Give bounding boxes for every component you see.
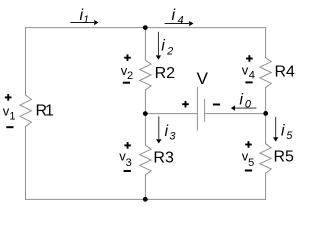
- label v1 with polarity: [3, 94, 16, 128]
- label i4: [172, 7, 184, 26]
- battery minus polarity: [213, 104, 220, 106]
- current arrow i2: [156, 32, 161, 60]
- wire middle branch center: [144, 90, 146, 145]
- label i3: [165, 123, 177, 143]
- wire middle branch lower: [144, 175, 146, 199]
- resistor R5: [260, 144, 271, 174]
- battery V long plate: [196, 88, 198, 131]
- wire middle branch upper: [144, 28, 146, 60]
- svg-text:i: i: [281, 122, 285, 139]
- current arrow i1: [70, 20, 98, 25]
- svg-text:R4: R4: [275, 63, 296, 80]
- resistor R1: [20, 95, 31, 127]
- current arrow i0: [231, 105, 257, 110]
- wire right middle: [265, 88, 267, 144]
- svg-text:i: i: [172, 7, 176, 24]
- svg-text:i: i: [165, 123, 169, 140]
- label v3 with polarity: [119, 142, 132, 172]
- svg-text:4: 4: [178, 14, 184, 26]
- svg-text:V: V: [197, 69, 209, 88]
- node d junction dot bottom: [143, 197, 148, 202]
- svg-text:R3: R3: [153, 149, 174, 166]
- svg-text:5: 5: [286, 130, 293, 142]
- svg-text:2: 2: [127, 70, 133, 82]
- label i5: [281, 122, 293, 142]
- label i0: [239, 92, 252, 111]
- current arrow i4: [165, 21, 194, 26]
- wire right lower: [265, 173, 267, 199]
- wire bottom: [26, 198, 266, 200]
- label v5 with polarity: [242, 141, 254, 171]
- label v2 with polarity: [121, 54, 133, 83]
- svg-text:2: 2: [166, 46, 173, 58]
- svg-text:R2: R2: [155, 65, 176, 82]
- svg-text:0: 0: [245, 98, 252, 110]
- node b junction dot middle left: [143, 111, 148, 116]
- svg-text:5: 5: [248, 157, 254, 169]
- svg-text:1: 1: [9, 110, 15, 122]
- wire left lower: [25, 127, 27, 200]
- label i2: [161, 37, 173, 57]
- svg-text:4: 4: [249, 70, 255, 82]
- wire right upper: [265, 28, 267, 58]
- node a junction dot top: [143, 25, 148, 30]
- wire middle horizontal right of battery: [205, 113, 266, 115]
- svg-text:R1: R1: [36, 103, 55, 120]
- node c junction dot middle right: [263, 111, 268, 116]
- battery V short plate: [204, 100, 206, 122]
- svg-text:i: i: [239, 92, 243, 109]
- label v4 with polarity: [242, 55, 255, 83]
- resistor R4: [260, 58, 271, 88]
- wire middle horizontal left of battery: [145, 113, 197, 115]
- current arrow i3: [156, 117, 161, 144]
- resistor R2: [140, 60, 151, 90]
- svg-text:3: 3: [169, 131, 176, 143]
- svg-text:i: i: [161, 37, 165, 54]
- label i1: [80, 7, 90, 26]
- svg-text:1: 1: [83, 14, 89, 26]
- wire left upper: [25, 28, 27, 95]
- svg-text:3: 3: [126, 157, 132, 169]
- svg-text:R5: R5: [274, 149, 295, 166]
- current arrow i5: [273, 117, 278, 142]
- battery plus polarity: [182, 101, 189, 108]
- resistor R3: [140, 145, 151, 175]
- wire top: [26, 27, 266, 29]
